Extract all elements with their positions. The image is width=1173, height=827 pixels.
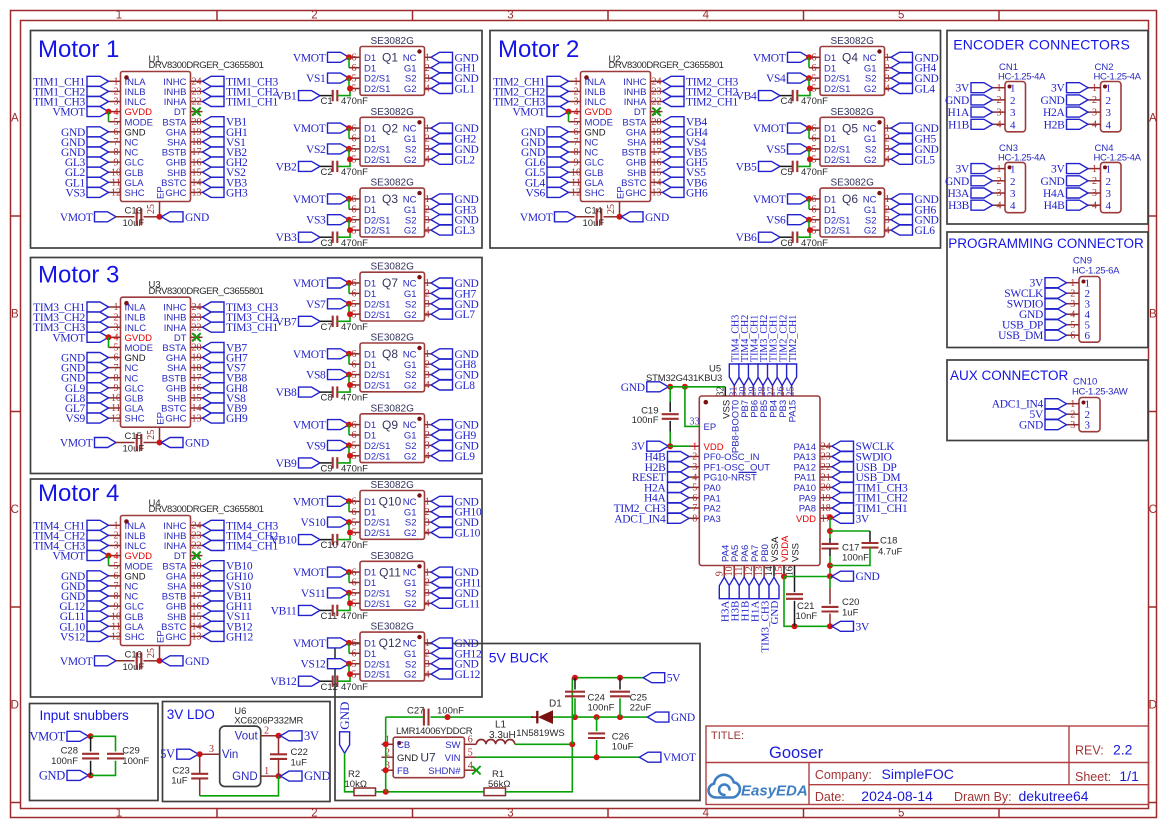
svg-text:VSS: VSS	[791, 543, 802, 562]
svg-text:5V BUCK: 5V BUCK	[489, 650, 550, 666]
no-connect DT	[192, 107, 200, 115]
svg-text:Drawn By:: Drawn By:	[954, 790, 1012, 804]
Q11 pin 2 (G1)	[425, 582, 432, 584]
CN4 pin 3	[1088, 192, 1101, 194]
wire	[568, 112, 570, 122]
Q1 pin 1 (NC)	[425, 56, 432, 58]
svg-text:Q4: Q4	[842, 51, 858, 65]
svg-text:6: 6	[812, 205, 817, 216]
svg-text:S2: S2	[405, 74, 417, 85]
svg-text:10uF: 10uF	[583, 218, 605, 229]
U1 pin 3 (INLC)	[109, 101, 121, 103]
U5 pin 4 (PG10-NRST)	[689, 476, 699, 478]
port GL12	[87, 601, 109, 611]
Q4 pin 6 (D1)	[809, 56, 820, 58]
svg-text:G2: G2	[404, 310, 417, 321]
U2 pin 14 (BSTC)	[651, 181, 663, 183]
svg-text:GND: GND	[304, 769, 330, 783]
connector CN4 body	[1101, 162, 1122, 212]
port VB4	[759, 91, 781, 101]
CN3 pin 4	[993, 204, 1006, 206]
svg-text:2: 2	[1106, 176, 1112, 188]
U1 pin 4 (GVDD)	[109, 111, 121, 113]
port GND	[431, 123, 453, 133]
Q9 pin 6 (D1)	[349, 434, 360, 436]
wire	[320, 320, 333, 322]
svg-text:VB9: VB9	[276, 458, 297, 470]
capacitor C13	[136, 208, 138, 225]
svg-text:56kΩ: 56kΩ	[488, 779, 510, 790]
port TIM3_CH3	[759, 577, 769, 599]
U2 pin 8 (NC)	[569, 151, 581, 153]
U2 pin 18 (SHA)	[651, 141, 663, 143]
svg-text:NC: NC	[403, 568, 417, 579]
port TIM4_CH1	[748, 364, 758, 386]
svg-text:GND: GND	[1040, 176, 1064, 188]
port VMOT	[67, 731, 89, 741]
svg-text:2: 2	[425, 507, 430, 518]
port GL4	[547, 177, 569, 187]
junction	[347, 382, 353, 388]
svg-text:3: 3	[997, 107, 1002, 118]
svg-text:GND: GND	[621, 382, 645, 394]
Q3 pin 6 (D1)	[349, 198, 360, 200]
U3 pin 13 (GHC)	[191, 417, 203, 419]
wire	[348, 522, 350, 532]
svg-text:VMOT: VMOT	[520, 212, 553, 224]
svg-text:NC: NC	[403, 195, 417, 206]
U3 pin 14 (BSTC)	[191, 407, 203, 409]
port VS1	[328, 73, 350, 83]
svg-text:3.3uH: 3.3uH	[489, 730, 516, 741]
svg-text:D2/S1: D2/S1	[364, 659, 390, 670]
port VMOT	[328, 349, 350, 359]
wire	[144, 216, 160, 218]
svg-text:LMR14006YDDCR: LMR14006YDDCR	[396, 726, 473, 737]
U5 pin 15 (VDDA)	[783, 566, 785, 577]
port GL11	[431, 598, 453, 608]
svg-text:470nF: 470nF	[341, 96, 368, 107]
port GL11	[87, 611, 109, 621]
capacitor C17	[822, 543, 839, 545]
U4 pin 1 (INLA)	[109, 524, 121, 526]
U2 pin 6 (GND)	[569, 131, 581, 133]
svg-text:3: 3	[425, 144, 430, 155]
svg-text:G1: G1	[404, 63, 417, 74]
Q11 pin 1 (NC)	[425, 571, 432, 573]
port TIM2_CH2	[663, 86, 685, 96]
port TIM4_CH3	[203, 520, 225, 530]
Q1 pin 5 (D2/S1)	[349, 88, 360, 90]
svg-text:2: 2	[425, 430, 430, 441]
svg-text:3: 3	[425, 659, 430, 670]
svg-text:12: 12	[111, 413, 121, 424]
Motor 4 section box	[31, 479, 483, 697]
port VB1	[203, 117, 225, 127]
U3 pin 16 (GHB)	[191, 387, 203, 389]
port TIM1_CH2	[203, 86, 225, 96]
port VS10	[203, 581, 225, 591]
svg-text:G2: G2	[404, 528, 417, 539]
junction	[617, 714, 623, 720]
junction	[347, 671, 353, 677]
wire	[337, 674, 350, 681]
port VB7	[299, 316, 321, 326]
port ADC1_IN4	[668, 513, 690, 523]
wire	[604, 216, 620, 218]
svg-text:VMOT: VMOT	[293, 349, 326, 361]
port TIM2_CH3	[663, 76, 685, 86]
svg-text:GH12: GH12	[226, 631, 253, 643]
wire	[808, 220, 810, 230]
svg-text:6: 6	[352, 420, 357, 431]
Q5 pin 5 (D2/S1)	[809, 148, 820, 150]
svg-text:3: 3	[425, 370, 430, 381]
Q11 pin 6 (D1)	[349, 571, 360, 573]
port 3V	[832, 513, 854, 523]
port TIM4_CH2	[87, 530, 109, 540]
CN1 pin 3	[993, 111, 1006, 113]
svg-text:25: 25	[146, 430, 157, 440]
junction	[276, 773, 282, 779]
svg-text:S2: S2	[405, 215, 417, 226]
svg-text:FB: FB	[397, 766, 409, 777]
svg-text:D2/S1: D2/S1	[364, 441, 390, 452]
svg-text:2: 2	[425, 289, 430, 300]
port GH4	[891, 63, 913, 73]
wire	[320, 462, 333, 464]
svg-text:S2: S2	[405, 370, 417, 381]
svg-text:GND: GND	[1019, 420, 1043, 432]
svg-text:VS10: VS10	[300, 517, 326, 529]
wire	[200, 776, 279, 796]
svg-text:1: 1	[425, 349, 430, 360]
svg-text:Q9: Q9	[382, 418, 398, 432]
svg-text:D1: D1	[364, 289, 376, 300]
svg-text:4: 4	[1106, 200, 1112, 212]
svg-text:D2/S1: D2/S1	[824, 226, 850, 237]
port H1B	[971, 119, 993, 129]
svg-text:5: 5	[352, 215, 357, 226]
svg-text:4: 4	[1010, 119, 1016, 131]
wire	[337, 89, 350, 96]
Q5 pin 4 (G2)	[885, 158, 892, 160]
Q1 pin 5 (D2/S1)	[349, 77, 360, 79]
port GND	[340, 732, 350, 754]
capacitor C18	[862, 542, 879, 544]
gate driver Q11 body	[360, 561, 425, 610]
svg-text:TIM2_CH1: TIM2_CH1	[788, 315, 799, 362]
svg-text:8: 8	[692, 514, 697, 525]
U4 pin 3 (INLC)	[109, 545, 121, 547]
svg-text:Motor 1: Motor 1	[38, 36, 119, 63]
svg-text:3: 3	[1092, 188, 1097, 199]
junction	[827, 623, 833, 629]
U3 pin 7 (NC)	[109, 367, 121, 369]
svg-text:Input snubbers: Input snubbers	[40, 708, 130, 723]
U4 pin 18 (SHA)	[191, 585, 203, 587]
U1 pin 14 (BSTC)	[191, 181, 203, 183]
Q6 pin 5 (D2/S1)	[809, 219, 820, 221]
wire	[669, 402, 671, 413]
svg-text:H4A: H4A	[1043, 188, 1065, 200]
svg-text:VS6: VS6	[766, 215, 786, 227]
port TIM4_CH1	[203, 541, 225, 551]
svg-text:2: 2	[425, 134, 430, 145]
CN4 pin 2	[1088, 180, 1101, 182]
svg-text:DRV8300DRGER_C3655801: DRV8300DRGER_C3655801	[609, 60, 724, 71]
svg-text:1: 1	[1010, 83, 1016, 95]
wire	[576, 216, 595, 218]
gate driver Q12 body	[360, 632, 425, 681]
port GL10	[431, 528, 453, 538]
svg-text:D2/S1: D2/S1	[364, 226, 390, 237]
port GND	[1045, 420, 1067, 430]
svg-text:PA15: PA15	[788, 400, 799, 423]
svg-text:VB4: VB4	[736, 91, 757, 103]
U2 pin 12 (SHC)	[569, 191, 581, 193]
svg-text:5: 5	[352, 299, 357, 310]
svg-text:32: 32	[716, 387, 727, 397]
Q11 pin 5 (D2/S1)	[349, 592, 360, 594]
U5 pin 21 (PA11)	[820, 476, 832, 478]
junction	[346, 280, 352, 286]
port TIM1_CH2	[87, 86, 109, 96]
junction	[667, 443, 673, 449]
wire	[829, 576, 831, 588]
svg-text:2: 2	[311, 10, 317, 22]
svg-text:NC: NC	[863, 53, 877, 64]
junction	[806, 217, 812, 223]
svg-text:NC: NC	[863, 124, 877, 135]
wire	[596, 717, 598, 731]
svg-text:C18: C18	[880, 536, 897, 547]
wire	[829, 538, 831, 544]
CN2 pin 3	[1088, 111, 1101, 113]
Q9 pin 2 (G1)	[425, 434, 432, 436]
port GH8	[431, 359, 453, 369]
port SWCLK	[832, 441, 854, 451]
svg-text:GL12: GL12	[455, 669, 481, 681]
Q10 pin 6 (D1)	[349, 500, 360, 502]
svg-text:Q3: Q3	[382, 192, 398, 206]
U3 pin 15 (SHB)	[191, 397, 203, 399]
U4 pin 16 (GHB)	[191, 605, 203, 607]
U5 pin 23 (PA13)	[820, 456, 832, 458]
IC U5 body	[699, 396, 820, 566]
wire	[345, 753, 354, 792]
svg-text:B: B	[11, 309, 19, 321]
port GL6	[547, 157, 569, 167]
svg-text:470nF: 470nF	[341, 611, 368, 622]
capacitor C27	[423, 709, 425, 726]
port TIM3_CH3	[203, 302, 225, 312]
capacitor C8	[332, 386, 334, 397]
svg-text:6: 6	[1085, 330, 1091, 342]
U7 pin 4 (SHDN#)	[464, 769, 476, 771]
U2 pin 5 (MODE)	[569, 121, 581, 123]
svg-text:Q1: Q1	[382, 51, 398, 65]
port VMOT	[328, 278, 350, 288]
svg-text:VS12: VS12	[60, 631, 86, 643]
U2 pin 21 (DT)	[651, 111, 663, 113]
svg-text:SE3082G: SE3082G	[371, 36, 415, 47]
Q9 pin 5 (D2/S1)	[349, 455, 360, 457]
junction	[792, 623, 798, 629]
port TIM1_CH3	[832, 482, 854, 492]
port GL5	[547, 167, 569, 177]
port TIM2_CH2	[777, 364, 787, 386]
port GH5	[891, 134, 913, 144]
port GND	[891, 215, 913, 225]
svg-text:1: 1	[116, 10, 122, 22]
port GL1	[87, 177, 109, 187]
svg-text:5: 5	[352, 659, 357, 670]
Q8 pin 3 (S2)	[425, 374, 432, 376]
svg-text:4: 4	[425, 669, 430, 680]
junction	[806, 146, 812, 152]
svg-text:4: 4	[703, 10, 710, 22]
junction	[827, 573, 833, 579]
junction	[346, 442, 352, 448]
svg-text:PA3: PA3	[704, 514, 721, 525]
svg-text:C5: C5	[781, 167, 793, 178]
no-connect DT	[192, 333, 200, 341]
port TIM2_CH1	[547, 76, 569, 86]
port TIM2_CH1	[663, 97, 685, 107]
port 5V	[1045, 409, 1067, 419]
svg-text:10uF: 10uF	[123, 444, 145, 455]
svg-text:VMOT: VMOT	[753, 123, 786, 135]
wire	[108, 337, 110, 347]
U1 pin 19 (GHA)	[191, 131, 203, 133]
U2 pin 1 (INLA)	[569, 80, 581, 82]
port H3B	[729, 577, 739, 599]
wire	[116, 216, 135, 218]
Q3 pin 1 (NC)	[425, 198, 432, 200]
svg-text:D1: D1	[364, 279, 376, 290]
svg-text:VMOT: VMOT	[293, 194, 326, 206]
port VS6	[547, 187, 569, 197]
port 3V	[1067, 164, 1089, 174]
port VB12	[299, 676, 321, 686]
Q9 pin 5 (D2/S1)	[349, 444, 360, 446]
junction	[346, 498, 352, 504]
port VMOT	[788, 52, 810, 62]
Q2 pin 4 (G2)	[425, 158, 432, 160]
junction	[106, 109, 112, 115]
svg-text:VB10: VB10	[270, 535, 297, 547]
U1 pin 24 (INHC)	[191, 80, 203, 82]
U5 pin 10 (PA5)	[733, 566, 735, 578]
svg-text:4: 4	[885, 225, 890, 236]
svg-text:3: 3	[425, 73, 430, 84]
junction	[346, 54, 352, 60]
junction	[347, 227, 353, 233]
svg-text:D1: D1	[364, 568, 376, 579]
no-connect DT	[192, 551, 200, 559]
svg-text:1: 1	[425, 123, 430, 134]
port GND	[431, 420, 453, 430]
Q4 pin 4 (G2)	[885, 88, 892, 90]
wire	[596, 740, 598, 757]
port GND	[431, 299, 453, 309]
port VMOT	[95, 212, 117, 222]
input snubbers box	[30, 704, 159, 801]
port 3V	[1067, 83, 1089, 93]
svg-text:EP: EP	[704, 422, 717, 433]
U4 pin 12 (SHC)	[109, 635, 121, 637]
svg-text:4: 4	[425, 84, 430, 95]
svg-text:VB1: VB1	[276, 91, 297, 103]
svg-text:6: 6	[352, 205, 357, 216]
IC U1 body	[121, 72, 191, 202]
svg-text:VMOT: VMOT	[293, 638, 326, 650]
Q4 pin 2 (G1)	[885, 67, 892, 69]
U4 pin 15 (SHB)	[191, 615, 203, 617]
svg-text:3V: 3V	[856, 513, 870, 525]
CN1 pin 2	[993, 99, 1006, 101]
port VS5	[663, 167, 685, 177]
Q10 pin 3 (S2)	[425, 521, 432, 523]
svg-text:VIN: VIN	[445, 753, 461, 764]
Q5 pin 3 (S2)	[885, 148, 892, 150]
Q4 pin 3 (S2)	[885, 77, 892, 79]
capacitor C1	[332, 90, 334, 101]
wire	[669, 432, 671, 447]
svg-text:VB2: VB2	[276, 161, 297, 173]
U5 pin 29 (PB6)	[752, 386, 754, 397]
svg-text:4: 4	[425, 225, 430, 236]
junction	[346, 301, 352, 307]
port GND	[431, 440, 453, 450]
resistor R2	[354, 788, 376, 796]
svg-text:470nF: 470nF	[341, 682, 368, 693]
U3 pin 5 (MODE)	[109, 346, 121, 348]
svg-text:D2/S1: D2/S1	[824, 84, 850, 95]
Q2 pin 1 (NC)	[425, 127, 432, 129]
svg-text:VB6: VB6	[736, 232, 757, 244]
port H2A	[1067, 107, 1089, 117]
junction	[806, 54, 812, 60]
junction	[88, 733, 94, 739]
junction	[197, 751, 203, 757]
U3 pin 6 (GND)	[109, 357, 121, 359]
Q7 pin 1 (NC)	[425, 282, 432, 284]
svg-text:A: A	[11, 113, 19, 125]
svg-text:GND: GND	[671, 712, 695, 724]
U1 pin 9 (GLC)	[109, 161, 121, 163]
Q5 pin 6 (D1)	[809, 138, 820, 140]
svg-text:GL1: GL1	[455, 84, 476, 96]
port VB1	[299, 91, 321, 101]
port GH2	[431, 134, 453, 144]
svg-text:3: 3	[1070, 299, 1075, 310]
3V LDO box	[163, 702, 331, 802]
port VMOT	[328, 420, 350, 430]
port TIM2_CH3	[547, 97, 569, 107]
Q6 pin 6 (D1)	[809, 198, 820, 200]
svg-text:1: 1	[425, 194, 430, 205]
junction	[347, 156, 353, 162]
port GH12	[203, 631, 225, 641]
svg-text:2: 2	[997, 95, 1002, 106]
capacitor C14	[596, 208, 598, 225]
wire	[320, 95, 333, 97]
svg-text:25: 25	[146, 648, 157, 658]
svg-text:GHC: GHC	[625, 188, 646, 199]
junction	[569, 741, 575, 747]
